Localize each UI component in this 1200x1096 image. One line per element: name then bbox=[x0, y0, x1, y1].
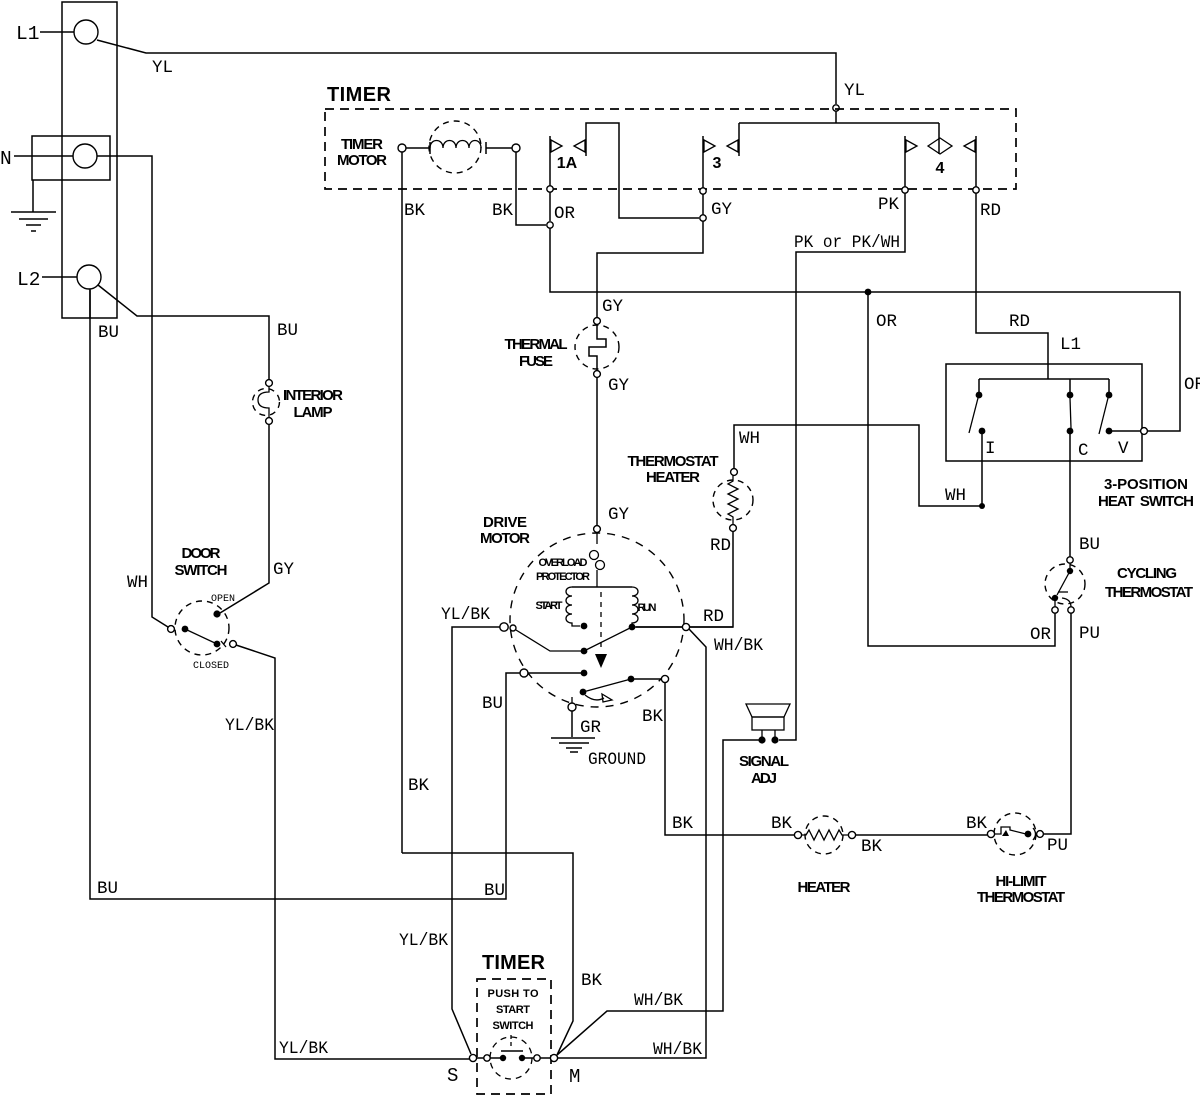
svg-text:BU: BU bbox=[484, 881, 505, 901]
motor rotor dashed arrow bbox=[600, 592, 602, 652]
node PK at box edge bbox=[902, 187, 908, 193]
contact 3 bbox=[703, 123, 739, 156]
svg-text:PU: PU bbox=[1079, 624, 1100, 644]
wire YL inside timer bbox=[739, 111, 939, 123]
svg-text:PU: PU bbox=[1047, 836, 1068, 856]
thermal fuse bbox=[575, 325, 619, 369]
wire YL/BK motor to push-to-start S bbox=[452, 627, 500, 1054]
svg-text:THERMOSTAT: THERMOSTAT bbox=[977, 889, 1065, 906]
svg-text:MOTOR: MOTOR bbox=[337, 152, 387, 169]
svg-text:BU: BU bbox=[98, 323, 119, 343]
svg-text:3-POSITION: 3-POSITION bbox=[1104, 476, 1188, 493]
svg-text:RD: RD bbox=[710, 536, 731, 556]
svg-text:L1: L1 bbox=[1060, 335, 1081, 355]
wire BK motor terminal bbox=[634, 678, 661, 680]
svg-text:YL: YL bbox=[844, 81, 865, 101]
svg-text:V: V bbox=[1118, 439, 1129, 459]
wire WH/BK signal adjust to M bbox=[557, 740, 759, 1055]
svg-text:TIMER: TIMER bbox=[482, 952, 546, 974]
svg-text:SWITCH: SWITCH bbox=[175, 562, 228, 579]
wire YL from L1 to timer bbox=[97, 40, 836, 104]
svg-text:HEATER: HEATER bbox=[646, 469, 700, 486]
svg-text:BK: BK bbox=[408, 776, 430, 796]
motor START winding bbox=[566, 587, 580, 626]
junction OR branch bbox=[865, 289, 872, 296]
svg-text:THERMAL: THERMAL bbox=[505, 336, 568, 353]
svg-text:GY: GY bbox=[608, 376, 630, 396]
svg-text:GY: GY bbox=[711, 200, 733, 220]
wire L1 lead bbox=[40, 31, 74, 33]
wire BU heat switch C to cycling thermostat bbox=[1069, 434, 1071, 557]
svg-text:BK: BK bbox=[771, 814, 793, 834]
svg-text:FUSE: FUSE bbox=[519, 353, 553, 370]
svg-text:DRIVE: DRIVE bbox=[483, 514, 527, 531]
motor helper actuator hook bbox=[585, 695, 604, 700]
svg-text:BU: BU bbox=[482, 694, 503, 714]
wire PK to signal adjust bbox=[779, 193, 905, 740]
svg-text:PROTECTOR: PROTECTOR bbox=[536, 571, 590, 583]
svg-text:HEAT SWITCH: HEAT SWITCH bbox=[1098, 493, 1194, 510]
signal adjust buzzer bbox=[746, 704, 790, 717]
wire V terminal to OR bbox=[1112, 430, 1140, 432]
motor terminal dots START / RUN bbox=[581, 623, 588, 630]
ground (motor) bbox=[551, 738, 595, 752]
heat switch pole I (open) bbox=[976, 392, 983, 399]
svg-text:OR: OR bbox=[1184, 375, 1200, 395]
svg-text:CYCLING: CYCLING bbox=[1117, 565, 1177, 582]
svg-text:GR: GR bbox=[580, 718, 602, 738]
wire WH from heat switch I to thermostat heater bbox=[981, 434, 983, 506]
svg-text:PUSH TO: PUSH TO bbox=[488, 988, 539, 1000]
push-to-start actuator bbox=[510, 1035, 512, 1049]
svg-text:WH/BK: WH/BK bbox=[653, 1040, 702, 1060]
terminal block outer rectangle bbox=[62, 2, 117, 318]
node V at box edge bbox=[1141, 428, 1148, 435]
svg-text:C: C bbox=[1078, 441, 1089, 461]
node RD at box edge bbox=[973, 187, 979, 193]
svg-text:YL/BK: YL/BK bbox=[399, 931, 448, 951]
motor YL/BK terminal bbox=[500, 623, 508, 631]
svg-text:INTERIOR: INTERIOR bbox=[283, 387, 343, 404]
svg-text:N: N bbox=[0, 148, 12, 170]
svg-text:MOTOR: MOTOR bbox=[480, 530, 530, 547]
node at box edge below 3 bbox=[700, 188, 706, 194]
svg-text:BU: BU bbox=[277, 321, 298, 341]
svg-text:OR: OR bbox=[554, 204, 576, 224]
svg-text:BK: BK bbox=[404, 201, 426, 221]
wire RD to heat switch L1 feed bbox=[976, 193, 1048, 379]
terminal L2 bbox=[77, 265, 101, 289]
svg-text:WH: WH bbox=[127, 573, 148, 593]
motor overload protector bbox=[594, 526, 601, 533]
svg-text:CLOSED: CLOSED bbox=[193, 661, 229, 672]
svg-text:LAMP: LAMP bbox=[294, 404, 333, 421]
svg-text:YL/BK: YL/BK bbox=[441, 605, 490, 625]
svg-text:4: 4 bbox=[936, 160, 945, 177]
terminal block N sub-box bbox=[32, 136, 110, 180]
svg-text:WH/BK: WH/BK bbox=[634, 991, 683, 1011]
node YL at timer box edge bbox=[833, 105, 839, 111]
wire GR to ground bbox=[571, 711, 573, 737]
motor helper contact blade bbox=[580, 689, 587, 696]
svg-text:OR: OR bbox=[1030, 625, 1052, 645]
svg-text:WH: WH bbox=[739, 429, 760, 449]
door switch OPEN contact bbox=[213, 610, 220, 617]
svg-text:RD: RD bbox=[703, 607, 724, 627]
svg-text:SIGNAL: SIGNAL bbox=[739, 753, 789, 770]
wire contact 3 left lead (GY) bbox=[702, 156, 704, 188]
svg-text:THERMOSTAT: THERMOSTAT bbox=[1105, 584, 1193, 601]
svg-text:SWITCH: SWITCH bbox=[493, 1020, 534, 1032]
svg-text:L1: L1 bbox=[16, 23, 39, 45]
contact 4 (with diamond) bbox=[905, 136, 976, 156]
svg-text:BK: BK bbox=[581, 971, 603, 991]
svg-text:WH: WH bbox=[945, 486, 966, 506]
wire YL/BK into centrifugal switch bbox=[516, 630, 584, 651]
motor RUN winding bbox=[632, 587, 638, 624]
svg-text:GROUND: GROUND bbox=[588, 750, 646, 770]
wire OR main run to heat switch V bbox=[550, 228, 1180, 431]
wire N lead bbox=[14, 155, 73, 157]
wire GY from junction to thermal fuse bbox=[597, 221, 703, 317]
wire BK timer-motor left lead down left side bbox=[401, 152, 403, 853]
svg-text:RUN: RUN bbox=[638, 602, 657, 614]
svg-text:ADJ: ADJ bbox=[751, 770, 777, 787]
svg-text:3: 3 bbox=[713, 155, 722, 172]
wire PU hi-limit to cycling thermostat bbox=[1044, 613, 1071, 834]
heat switch pole C (closed) bbox=[1067, 392, 1074, 399]
wire BK timer-motor right lead bbox=[516, 152, 546, 225]
svg-text:PK or PK/WH: PK or PK/WH bbox=[794, 233, 900, 253]
wire YL/BK door switch to push-to-start S bbox=[236, 645, 469, 1059]
svg-text:OR: OR bbox=[876, 312, 898, 332]
hi-limit thermostat bbox=[994, 813, 1036, 855]
svg-text:I: I bbox=[985, 439, 996, 459]
wire WH from N to door switch bbox=[97, 156, 168, 627]
svg-text:PK: PK bbox=[878, 195, 900, 215]
door switch blade to CLOSED bbox=[185, 629, 217, 644]
timer dashed enclosure bbox=[325, 109, 1016, 189]
svg-text:BK: BK bbox=[966, 814, 988, 834]
node GY junction bbox=[700, 215, 706, 221]
node motor RD/WHBK terminal bbox=[682, 623, 689, 630]
motor GR terminal bbox=[568, 703, 576, 711]
wire BU motor to L2 bbox=[90, 290, 520, 899]
terminal L1 bbox=[74, 20, 98, 44]
motor BU terminal bbox=[520, 669, 528, 677]
svg-text:YL/BK: YL/BK bbox=[279, 1039, 328, 1059]
3-position heat switch box bbox=[946, 364, 1142, 461]
svg-text:BU: BU bbox=[1079, 535, 1100, 555]
wire GY fuse to drive motor bbox=[596, 377, 598, 526]
wire BK heater to hi-limit bbox=[855, 834, 987, 836]
svg-text:BK: BK bbox=[672, 814, 694, 834]
svg-text:M: M bbox=[569, 1066, 580, 1088]
thermostat heater bbox=[713, 480, 753, 520]
svg-text:YL/BK: YL/BK bbox=[225, 716, 274, 736]
svg-text:HEATER: HEATER bbox=[798, 879, 851, 896]
wire contact 4 right lead (RD) bbox=[975, 156, 977, 187]
svg-text:TIMER: TIMER bbox=[327, 84, 392, 106]
wire 1A right lead up-over to GY node bbox=[586, 123, 699, 218]
svg-text:WH/BK: WH/BK bbox=[714, 636, 763, 656]
ground (service ground at N box) bbox=[32, 180, 34, 212]
wire OR branch to cycling thermostat bbox=[868, 295, 1055, 646]
wire BK timer motor to push-to-start M bbox=[402, 853, 573, 1055]
svg-text:BK: BK bbox=[642, 707, 664, 727]
svg-text:OVERLOAD: OVERLOAD bbox=[539, 557, 588, 569]
node OR junction under 1A bbox=[547, 222, 553, 228]
svg-text:START: START bbox=[496, 1004, 530, 1016]
node at box edge below 1A bbox=[547, 186, 553, 192]
svg-text:RD: RD bbox=[980, 201, 1001, 221]
door switch bbox=[175, 601, 229, 655]
svg-text:L2: L2 bbox=[17, 269, 40, 291]
motor centrifugal switch blade bbox=[584, 628, 630, 651]
wire contact 1A left lead (OR) bbox=[549, 156, 551, 186]
wire RD heater to motor RUN bbox=[636, 531, 733, 627]
wire contact 4 left lead (PK) bbox=[904, 156, 906, 187]
svg-text:BK: BK bbox=[492, 201, 514, 221]
heat switch pole V (open) bbox=[1106, 392, 1113, 399]
svg-text:BU: BU bbox=[97, 879, 118, 899]
wire RUN dot to RD and node bbox=[632, 626, 733, 628]
svg-text:TIMER: TIMER bbox=[341, 136, 383, 153]
cycling thermostat bbox=[1045, 564, 1085, 604]
svg-text:RD: RD bbox=[1009, 312, 1030, 332]
svg-text:GY: GY bbox=[273, 560, 295, 580]
svg-text:S: S bbox=[447, 1065, 458, 1087]
push-to-start terminals S and M bbox=[469, 1054, 476, 1061]
heat switch internal bus bbox=[979, 379, 1109, 392]
wire WH/BK motor to push-to-start M bbox=[558, 629, 706, 1058]
svg-text:THERMOSTAT: THERMOSTAT bbox=[628, 453, 719, 470]
svg-text:DOOR: DOOR bbox=[182, 545, 221, 562]
svg-text:GY: GY bbox=[602, 297, 624, 317]
drive motor enclosure bbox=[510, 533, 684, 707]
heater bbox=[805, 816, 843, 854]
contact 1A bbox=[550, 136, 586, 156]
svg-text:BK: BK bbox=[861, 837, 883, 857]
wire BU L2 drop bbox=[89, 289, 91, 318]
wire BU from L2 to interior lamp bbox=[98, 285, 269, 379]
svg-text:1A: 1A bbox=[557, 155, 578, 172]
svg-text:GY: GY bbox=[608, 505, 630, 525]
svg-text:START: START bbox=[536, 600, 563, 612]
svg-text:HI-LIMIT: HI-LIMIT bbox=[996, 873, 1047, 890]
wire L2 lead bbox=[42, 276, 77, 278]
wire GY lamp to door switch OPEN bbox=[220, 424, 269, 613]
svg-text:YL: YL bbox=[152, 58, 173, 78]
motor winding bus bbox=[572, 586, 632, 588]
terminal N bbox=[73, 144, 97, 168]
wire BK motor to heater bbox=[665, 682, 795, 835]
interior lamp bbox=[253, 389, 280, 416]
svg-text:OPEN: OPEN bbox=[211, 594, 235, 605]
